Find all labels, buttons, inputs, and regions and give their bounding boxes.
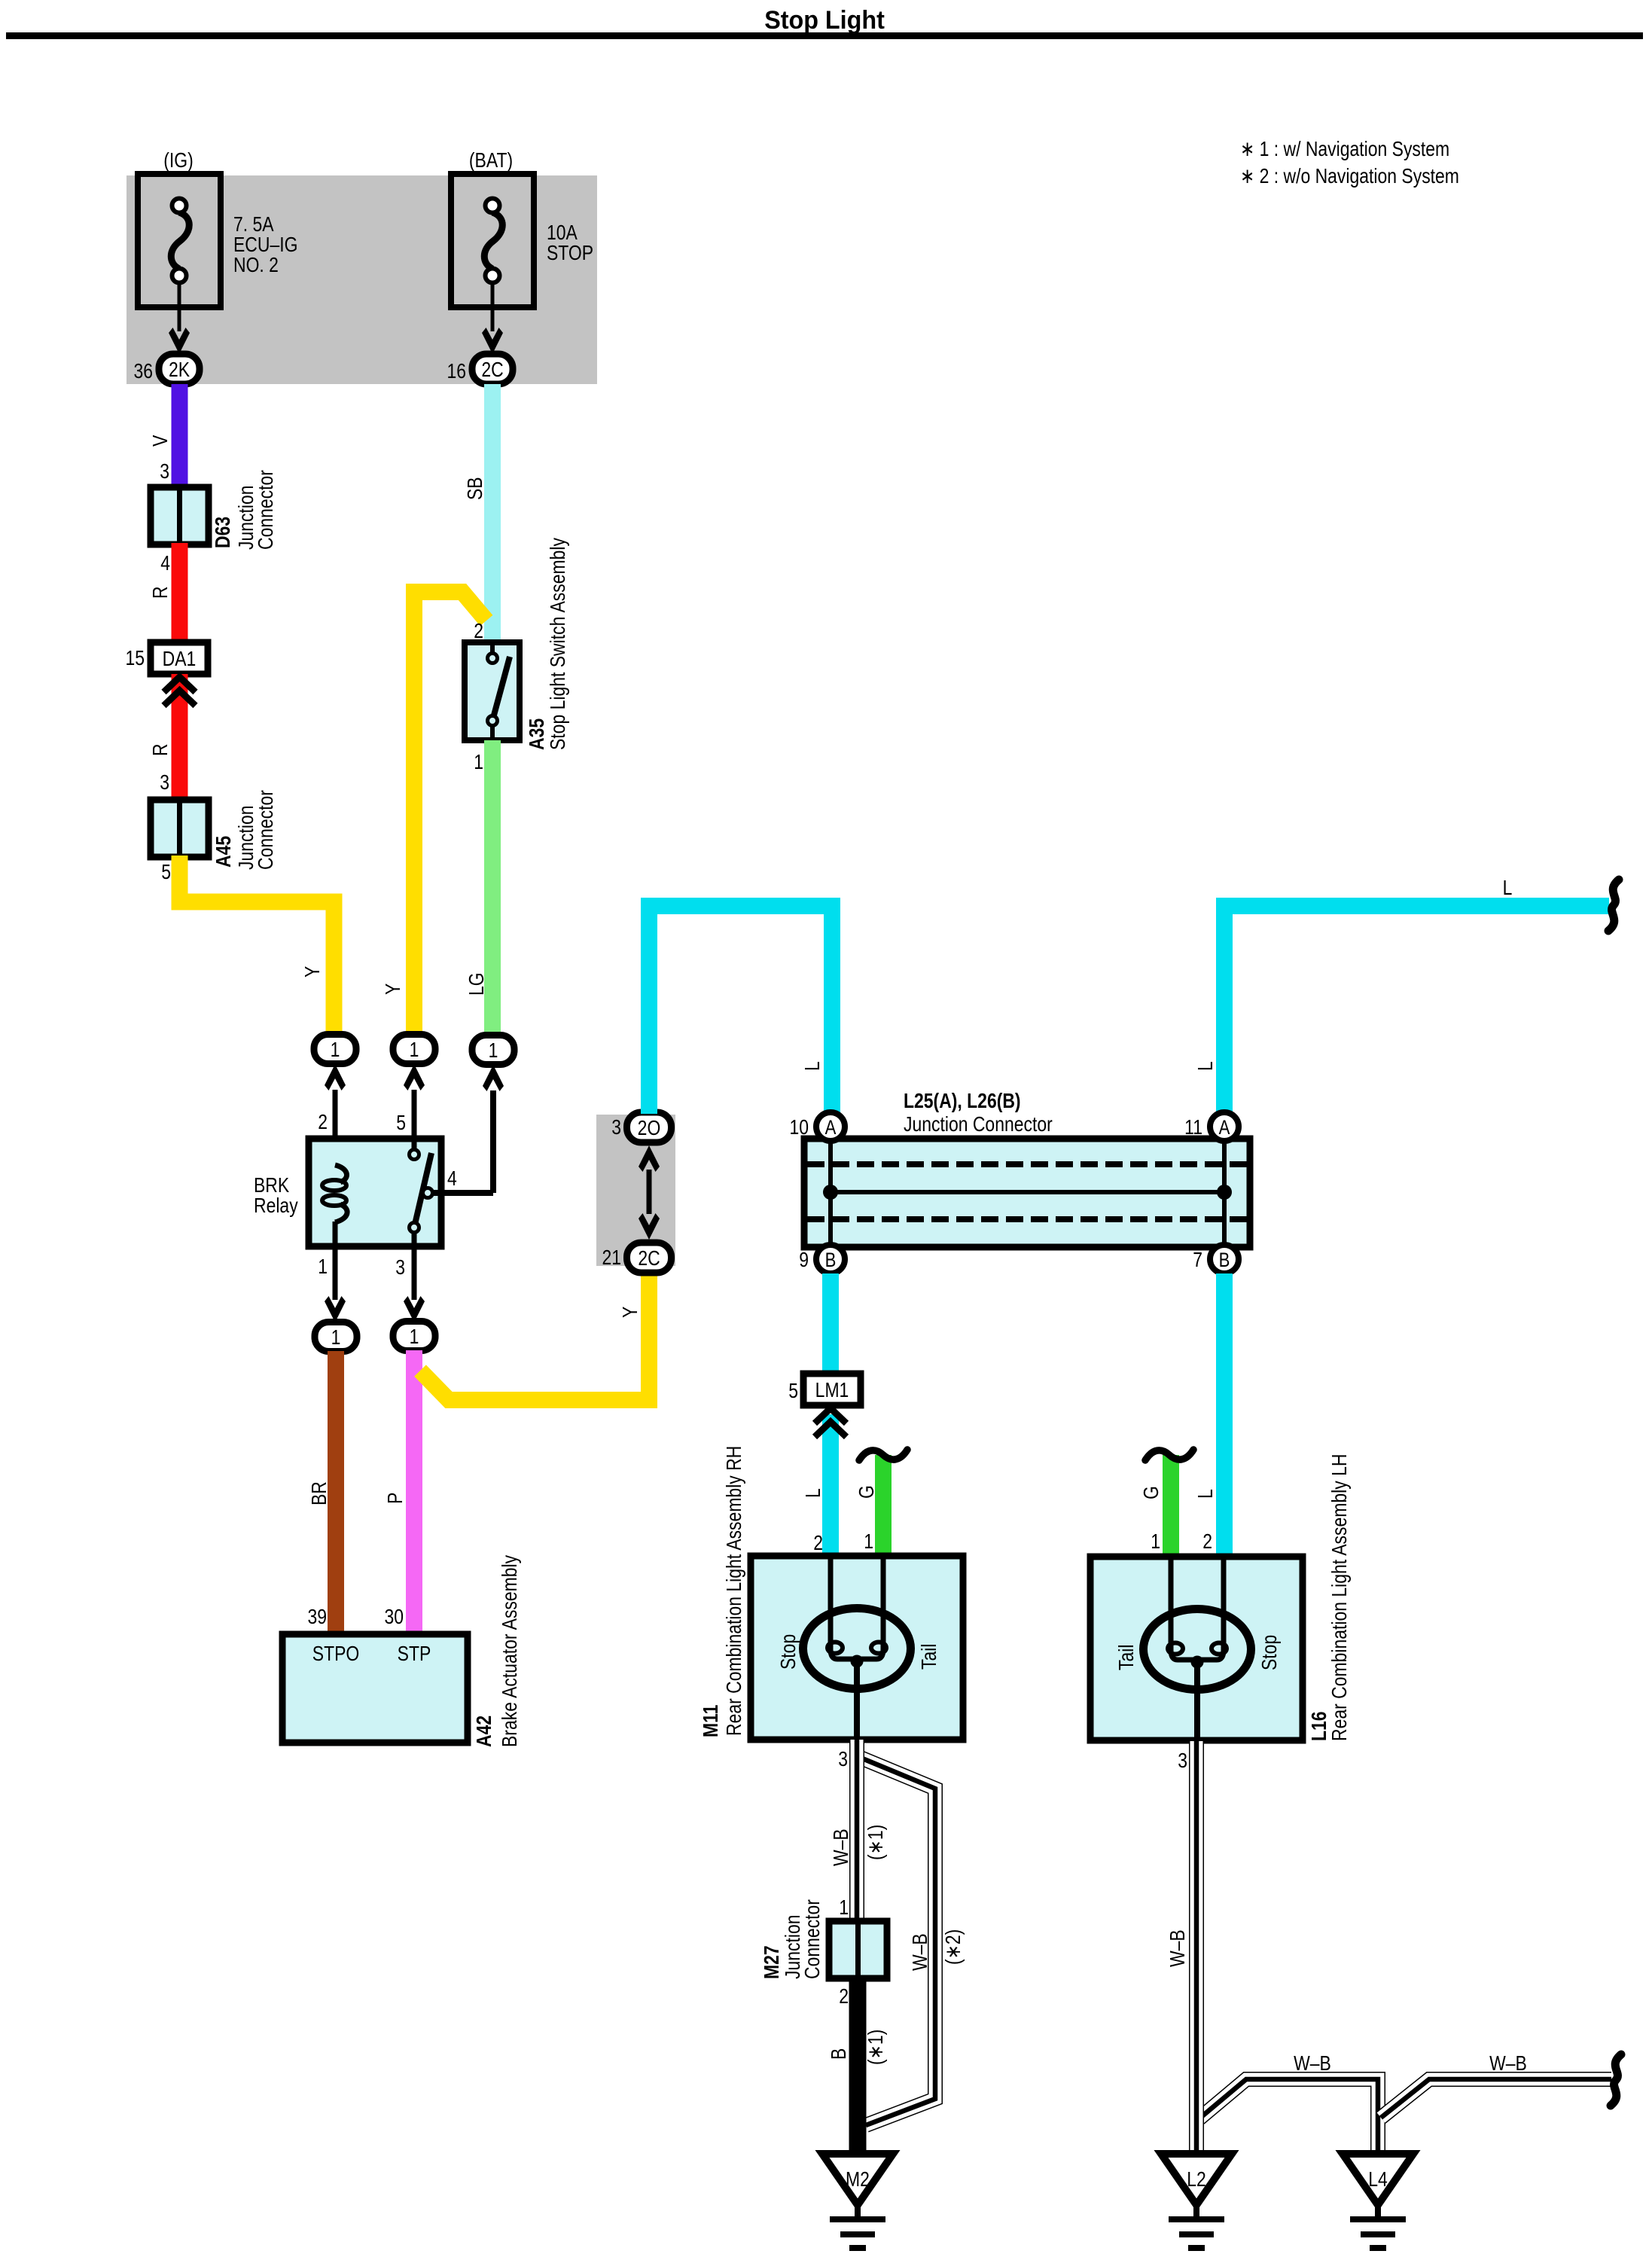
svg-text:2C: 2C: [481, 358, 503, 382]
svg-text:2O: 2O: [638, 1117, 661, 1140]
svg-text:BR: BR: [308, 1481, 331, 1505]
svg-text:W–B: W–B: [830, 1828, 853, 1866]
svg-text:1: 1: [864, 1530, 873, 1554]
svg-text:(∗1): (∗1): [864, 1825, 888, 1860]
svg-text:3: 3: [611, 1116, 621, 1139]
svg-text:7: 7: [1193, 1249, 1202, 1272]
svg-text:(∗2): (∗2): [942, 1929, 965, 1965]
svg-text:Stop Light: Stop Light: [764, 6, 885, 35]
svg-text:Tail: Tail: [918, 1644, 941, 1670]
svg-text:R: R: [149, 743, 172, 756]
svg-text:1: 1: [331, 1039, 340, 1062]
svg-text:4: 4: [447, 1167, 457, 1191]
svg-text:Junction Connector: Junction Connector: [904, 1113, 1053, 1136]
svg-text:5: 5: [161, 861, 171, 884]
svg-text:3: 3: [1178, 1749, 1187, 1773]
svg-text:M2: M2: [846, 2168, 870, 2191]
svg-text:B: B: [828, 2048, 851, 2060]
svg-text:A: A: [825, 1117, 837, 1139]
svg-text:W–B: W–B: [1294, 2052, 1331, 2076]
svg-text:Brake Actuator Assembly: Brake Actuator Assembly: [498, 1555, 522, 1747]
svg-text:3: 3: [395, 1256, 405, 1279]
svg-text:4: 4: [160, 552, 170, 575]
svg-text:LG: LG: [465, 972, 489, 996]
svg-text:Y: Y: [619, 1307, 642, 1318]
svg-text:W–B: W–B: [1166, 1929, 1190, 1967]
svg-text:1: 1: [489, 1039, 498, 1063]
svg-text:2: 2: [474, 620, 483, 643]
svg-text:L: L: [1503, 877, 1513, 900]
svg-text:STP: STP: [398, 1642, 431, 1666]
svg-text:3: 3: [160, 460, 169, 483]
svg-text:Connector: Connector: [255, 790, 278, 870]
svg-text:L: L: [801, 1061, 824, 1071]
svg-text:W–B: W–B: [1489, 2052, 1527, 2076]
svg-text:L4: L4: [1368, 2168, 1388, 2191]
svg-text:A42: A42: [473, 1716, 496, 1747]
svg-text:DA1: DA1: [163, 648, 197, 671]
svg-text:Connector: Connector: [801, 1899, 824, 1979]
svg-text:Y: Y: [301, 966, 325, 978]
svg-text:21: 21: [602, 1246, 621, 1270]
svg-text:39: 39: [307, 1606, 327, 1629]
svg-text:(∗1): (∗1): [864, 2030, 888, 2065]
svg-text:1: 1: [318, 1255, 328, 1279]
svg-text:L2: L2: [1187, 2168, 1206, 2191]
svg-text:15: 15: [125, 647, 145, 670]
svg-text:Connector: Connector: [255, 470, 278, 550]
svg-text:NO. 2: NO. 2: [233, 254, 279, 277]
svg-text:M11: M11: [700, 1705, 723, 1737]
svg-text:3: 3: [160, 771, 169, 795]
svg-text:M27: M27: [760, 1945, 784, 1979]
svg-text:5: 5: [788, 1380, 798, 1403]
svg-text:30: 30: [384, 1606, 404, 1629]
svg-text:∗ 2 : w/o Navigation System: ∗ 2 : w/o Navigation System: [1240, 165, 1459, 188]
svg-text:2: 2: [813, 1532, 823, 1555]
svg-text:SB: SB: [464, 477, 487, 500]
svg-text:2: 2: [839, 1985, 849, 2008]
svg-text:2: 2: [318, 1111, 328, 1134]
svg-text:B: B: [825, 1249, 837, 1272]
svg-text:1: 1: [410, 1039, 419, 1062]
svg-text:1: 1: [474, 751, 483, 774]
svg-text:G: G: [1140, 1486, 1163, 1499]
svg-text:Stop: Stop: [777, 1634, 800, 1670]
svg-text:∗ 1 : w/ Navigation System: ∗ 1 : w/ Navigation System: [1240, 138, 1449, 161]
svg-text:1: 1: [839, 1896, 849, 1920]
svg-text:Relay: Relay: [254, 1194, 298, 1218]
svg-text:D63: D63: [212, 517, 235, 548]
svg-text:A: A: [1219, 1117, 1230, 1139]
svg-text:W–B: W–B: [909, 1933, 932, 1971]
svg-text:2C: 2C: [638, 1247, 660, 1270]
svg-text:11: 11: [1184, 1116, 1202, 1139]
svg-text:B: B: [1219, 1249, 1230, 1272]
svg-text:2: 2: [1202, 1530, 1212, 1554]
svg-text:A45: A45: [212, 836, 236, 868]
svg-text:STOP: STOP: [547, 242, 593, 265]
svg-text:Stop Light Switch Assembly: Stop Light Switch Assembly: [547, 538, 570, 750]
svg-text:1: 1: [1151, 1530, 1160, 1554]
svg-text:A35: A35: [526, 718, 549, 750]
svg-text:36: 36: [133, 360, 153, 383]
svg-text:Tail: Tail: [1115, 1645, 1138, 1670]
svg-text:LM1: LM1: [815, 1379, 849, 1402]
svg-text:Rear Combination Light Assembl: Rear Combination Light Assembly LH: [1328, 1454, 1352, 1741]
svg-text:STPO: STPO: [312, 1642, 359, 1666]
svg-text:Stop: Stop: [1258, 1635, 1282, 1670]
svg-text:10: 10: [789, 1116, 809, 1139]
svg-text:(IG): (IG): [163, 149, 194, 172]
svg-text:L25(A), L26(B): L25(A), L26(B): [904, 1090, 1021, 1113]
svg-text:L: L: [802, 1488, 825, 1498]
svg-text:G: G: [855, 1485, 879, 1499]
svg-text:L: L: [1194, 1061, 1218, 1071]
svg-text:9: 9: [799, 1249, 809, 1272]
svg-text:L: L: [1194, 1489, 1218, 1499]
svg-text:Y: Y: [382, 984, 405, 995]
svg-text:V: V: [149, 435, 172, 447]
svg-text:1: 1: [410, 1325, 419, 1349]
svg-text:Rear Combination Light Assembl: Rear Combination Light Assembly RH: [723, 1446, 746, 1736]
svg-text:16: 16: [447, 360, 466, 383]
svg-text:1: 1: [331, 1326, 341, 1350]
svg-text:2K: 2K: [169, 358, 190, 382]
svg-text:R: R: [149, 586, 172, 599]
svg-text:(BAT): (BAT): [469, 149, 513, 172]
svg-text:P: P: [384, 1493, 407, 1504]
svg-text:3: 3: [838, 1748, 848, 1771]
svg-text:5: 5: [396, 1112, 406, 1135]
